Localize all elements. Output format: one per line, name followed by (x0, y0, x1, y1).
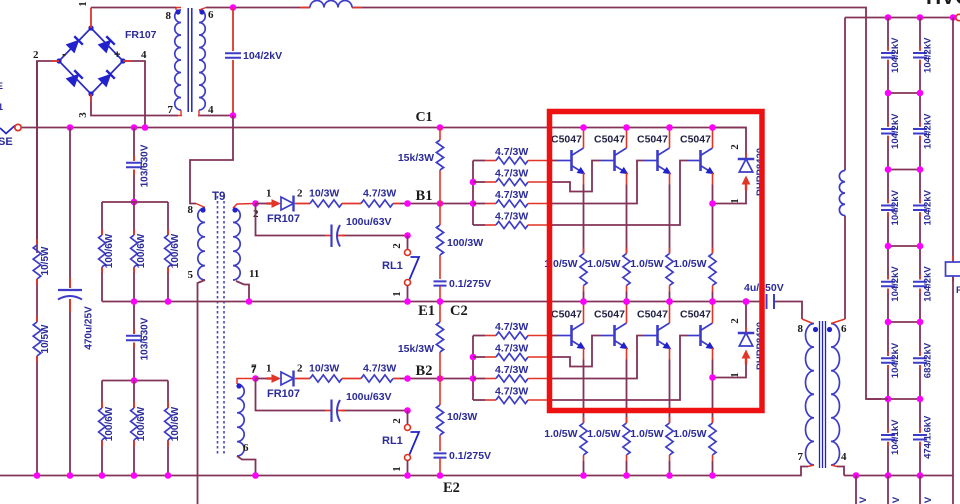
transformer T1 polarity dot pin6 (199, 9, 204, 14)
junction: RL1 branch (B1 row) (404, 200, 411, 207)
svg-text:1: 1 (729, 372, 741, 378)
wire: upper loop bottom (713, 191, 747, 204)
pin label 2 (lower diode, rotated) (729, 318, 741, 324)
red arrow up (lower diode) (742, 350, 751, 365)
label 4.7/3W rail 4 (upper) (495, 211, 528, 223)
wire: T2 pin7 lead (808, 465, 814, 467)
label 1.0/5W Q4 (upper) (673, 258, 706, 270)
junction collector Q2 on bus (lower) (623, 298, 630, 305)
pin label 4 (bridge) (141, 49, 147, 61)
wire: 0.1 cap to E1 bus (439, 286, 441, 302)
label SE (cut-off FUSE text) (0, 136, 13, 148)
wire: fan rail 4 lead (lower) (473, 399, 496, 401)
resistor 1.0/5W Q3 (lower) (666, 423, 673, 455)
wire: rail1 to Q1 base (upper) (548, 160, 558, 162)
svg-text:100/6W: 100/6W (136, 406, 147, 441)
label C5047 Q2 (lower) (594, 309, 625, 321)
svg-text:B2: B2 (416, 363, 433, 379)
wire: ladder col2 segment 2 (919, 93, 921, 170)
junction E1 bus x=134 (131, 298, 138, 305)
wire: T9 pin6 down to E2 bus (237, 456, 256, 476)
svg-text:T9: T9 (212, 191, 225, 203)
pin label 1 (upper diode, rotated) (729, 198, 741, 204)
relay contact RL1 bottom circle (upper) (405, 280, 411, 286)
capacitor 474/1.6kV col2 row6 (913, 435, 927, 439)
junction E2 bus x=102 (99, 472, 106, 479)
wire: rail2 jog to Q2 base (lower) (548, 336, 601, 367)
pin label 2 (RL1 upper, rotated) (391, 243, 403, 249)
diode FR107 (B2 row) (281, 371, 294, 387)
junction ladder col2 y=399 (917, 396, 924, 403)
wire: T2 pin6 up through inductor to HV rail (831, 18, 845, 324)
junction lower loop bottom (709, 374, 716, 381)
resistor 10/3W (B1 row) (310, 200, 342, 207)
T2 polarity dot pin8 (813, 327, 818, 332)
wire: emitter Q2 down (lower) (626, 348, 628, 423)
label FR107 (bridge) (125, 29, 157, 41)
resistor 100/6W #2 (131, 235, 138, 267)
wire: HV top rail (845, 17, 953, 19)
transformer T1 polarity dot pin8 (175, 9, 180, 14)
svg-text:FR107: FR107 (267, 388, 300, 400)
wire: top rail from bridge node 1 to transformer pin 8 (91, 7, 176, 9)
wire: bridge node 4 to main bus (123, 61, 145, 128)
svg-text:1.0/5W: 1.0/5W (544, 428, 577, 440)
label 1.0/5W Q1 (lower) (544, 428, 577, 440)
svg-text:4.7/3W: 4.7/3W (495, 168, 528, 180)
label 1.0/5W Q2 (upper) (587, 258, 620, 270)
junction emitter resistor on bus Q3 (lower) (666, 472, 673, 479)
wire: lower resistor bank top rail (102, 380, 168, 382)
node label B2 (416, 363, 433, 379)
svg-text:4: 4 (841, 451, 847, 463)
svg-text:6: 6 (243, 442, 249, 454)
fuse lead (left edge) (0, 126, 15, 134)
label 104/1kV col1 row6 (rotated) (890, 419, 901, 455)
wire: between resistors (B2 row) (342, 378, 361, 380)
pin label 8 (T9) (188, 204, 194, 216)
junction ladder col1 y=93 (885, 90, 892, 97)
resistor 4.7/3W rail 2 (upper) (496, 178, 528, 185)
svg-text:R: R (956, 285, 960, 296)
svg-text:103/630V: 103/630V (140, 144, 151, 187)
wire: top rail from transformer pin 6 to right, down at x=866 to cap ladder row (206, 8, 881, 400)
junction ladder col1 y=246 (885, 243, 892, 250)
svg-text:4.7/3W: 4.7/3W (495, 211, 528, 223)
wire: 100u cap branch (B2) (256, 379, 408, 411)
relay RL1 blade (lower) (410, 432, 420, 455)
wire: transformer pin4 stub (198, 115, 233, 117)
svg-text:1: 1 (77, 1, 89, 7)
junction E1 bus x=407.5 (404, 298, 411, 305)
diode FR107 (B1 row) (281, 196, 294, 212)
junction: T9 output node (B1 row) (252, 200, 259, 207)
wire: RL1 top lead (lower) (407, 411, 409, 425)
svg-text:C5047: C5047 (594, 309, 625, 321)
wire: between resistors (B1 row) (342, 203, 361, 205)
label 4.7/3W (B1 row) (363, 188, 396, 200)
bridge diode top-right (98, 36, 115, 53)
wire: ladder rung y=169.5 (888, 169, 920, 171)
svg-text:4.7/3W: 4.7/3W (495, 364, 528, 376)
capacitor 470u/25V (58, 290, 82, 300)
transformer T9 core (dashed) (218, 196, 225, 456)
junction upper loop top (709, 124, 715, 130)
resistor 100/6W #5 (131, 408, 138, 440)
junction HV rail x=920 (917, 14, 924, 21)
bridge vertex dot right (node 4) (120, 58, 125, 63)
red arrow up (upper diode) (742, 176, 751, 191)
label 4.7/3W rail 3 (upper) (495, 189, 528, 201)
svg-text:FR107: FR107 (267, 213, 300, 225)
svg-text:104/2kV: 104/2kV (890, 37, 901, 73)
junction ladder col2 y=93 (917, 90, 924, 97)
label 1.0/5W Q3 (upper) (630, 258, 663, 270)
wire: T9 pin7 to B2 diode node (237, 379, 256, 385)
label E fragment (left edge) (0, 81, 3, 91)
junction lower bank rail x=134 (131, 377, 138, 384)
wire: lower loop diode branch (745, 302, 747, 334)
junction ladder col2 y=169.5 (917, 166, 924, 173)
capacitor 104/2kV col1 row1 (881, 53, 895, 57)
bridge rectifier FR107 - frame (59, 28, 123, 94)
transistor Q4 C5047 (lower bank) (687, 323, 714, 349)
bridge diode bottom-right (98, 70, 115, 87)
label 103/630V (lower, rotated) (140, 317, 151, 360)
label 683/2kV col2 row5 (rotated) (923, 342, 934, 378)
svg-text:104/2kV: 104/2kV (890, 266, 901, 302)
pin label 2 (FR107 B2) (297, 363, 303, 375)
junction fan rail3 (lower) (470, 375, 477, 382)
wire: rail2 jog to Q2 base (upper) (548, 161, 601, 192)
wire: node to arrow stub (B2 row) (256, 378, 268, 380)
wire: fan rail 4 after resistor (upper) (528, 224, 548, 226)
label 4.7/3W rail 3 (lower) (495, 364, 528, 376)
svg-text:104/2kV: 104/2kV (890, 113, 901, 149)
junction: pin4/cap node (230, 112, 237, 119)
wire: node to arrow stub (B1 row) (256, 203, 268, 205)
label 100u/63V (B2) (346, 391, 392, 403)
junction emitter resistor on bus Q3 (upper) (666, 298, 673, 305)
svg-text:10/5W: 10/5W (40, 324, 51, 353)
wire: rail1 to Q1 base (lower) (548, 335, 558, 337)
junction emitter resistor on bus Q2 (lower) (623, 472, 630, 479)
pin label 6 (T9) (243, 442, 249, 454)
wire: B2 to 10/3W (439, 379, 441, 452)
wire: lower loop bottom (713, 365, 747, 378)
wire: inductor L1 red leads (300, 7, 362, 9)
junction: 100u cap to RL1 line (B2) (404, 407, 411, 414)
pin label 2 (bridge) (33, 49, 39, 61)
wire: ladder col2 below bus (919, 476, 921, 504)
label 100/6W #6 (rotated) (170, 406, 181, 441)
junction ladder col2 y=246 (917, 243, 924, 250)
resistor 15k/3W (upper) (436, 140, 443, 170)
svg-text:2: 2 (297, 363, 303, 375)
wire: below-bus stub x=856 (855, 476, 857, 504)
wire: fan rail 3 after resistor (upper) (528, 203, 548, 205)
svg-text:10/5W: 10/5W (40, 246, 51, 275)
wire: bridge node 2 to left column (37, 61, 59, 253)
wire: pin4 node down and over to T9 pin 8 (190, 116, 233, 208)
transistor Q1 C5047 (lower bank) (558, 323, 585, 349)
label 4.7/3W rail 2 (upper) (495, 168, 528, 180)
svg-text:100/3W: 100/3W (447, 237, 483, 249)
terminal circle (fuse output) (15, 124, 21, 130)
resistor 4.7/3W (B2 row) (361, 375, 393, 382)
wire: RL1 bottom lead (upper) (407, 286, 409, 302)
svg-text:V: V (923, 496, 934, 503)
label RHRP8420 (lower, rotated) (755, 322, 766, 370)
svg-text:4: 4 (208, 104, 214, 116)
svg-text:B1: B1 (416, 188, 433, 204)
svg-text:1: 1 (266, 188, 272, 200)
resistor 10/5W lower (33, 322, 41, 356)
wire: 1.0/5W to bus (lower) (583, 455, 585, 476)
label 4.7/3W rail 1 (lower) (495, 321, 528, 333)
svg-text:7: 7 (251, 363, 257, 375)
junction collector Q1 on bus (lower) (580, 298, 587, 305)
pin label 7 (T9) (251, 364, 257, 376)
junction on C1 bus x=440 (437, 124, 444, 131)
svg-text:6: 6 (841, 323, 847, 335)
junction collector Q3 on bus (upper) (666, 124, 673, 131)
junction: B node (B2 row) (437, 375, 444, 382)
relay contact RL1 bottom circle (lower) (405, 455, 411, 461)
svg-text:100/6W: 100/6W (104, 406, 115, 441)
svg-text:104/2kV: 104/2kV (923, 37, 934, 73)
label T9 (212, 191, 225, 203)
wire: T9 pin5 down (crosses buses) (198, 280, 206, 504)
svg-text:C5047: C5047 (551, 309, 582, 321)
wire: rail4 to Q4 base (lower) (548, 336, 687, 401)
wire: ladder col1 segment 1 (887, 18, 889, 94)
bridge vertex dot bottom (node 3) (88, 91, 93, 96)
wire: RL1 top lead (upper) (407, 236, 409, 250)
svg-text:C5047: C5047 (680, 134, 711, 146)
wire: collector Q2 to bus (upper) (626, 128, 628, 149)
svg-text:4.7/3W: 4.7/3W (495, 321, 528, 333)
label C5047 Q4 (upper) (680, 134, 711, 146)
svg-text:C5047: C5047 (594, 134, 625, 146)
wire: fan rail 3 lead (lower) (473, 378, 496, 380)
wire: C1 to 15k/3W to B1 (439, 128, 441, 204)
svg-text:104/2kV: 104/2kV (890, 342, 901, 378)
pin label 1 (FR107 B2) (266, 363, 272, 375)
junction collector Q3 on bus (lower) (666, 298, 673, 305)
capacitor 104/2kV col1 row2 (881, 129, 895, 133)
wire: lower 0.1 cap to E2 bus (439, 458, 441, 476)
junction on C1 bus x=134 (131, 124, 138, 131)
label 104/2kV col1 row5 (rotated) (890, 342, 901, 378)
junction emitter resistor on bus Q2 (upper) (623, 298, 630, 305)
label 474/1.6kV col2 row6 (rotated) (923, 415, 934, 459)
svg-text:4.7/3W: 4.7/3W (363, 363, 396, 375)
inductor L1 on top rail (310, 1, 352, 8)
wire: collector Q3 to bus (upper) (669, 128, 671, 149)
wire: 1.0/5W to bus (upper) (712, 286, 714, 302)
wire: ladder col1 below bus (887, 476, 889, 504)
label 1.0/5W Q1 (upper) (544, 258, 577, 270)
wire: base fan vertical (upper) (472, 161, 474, 226)
junction emitter resistor on bus Q1 (upper) (580, 298, 587, 305)
wire: B1 to 100/3W (439, 204, 441, 280)
svg-text:100/6W: 100/6W (170, 406, 181, 441)
bridge vertex dot top (node 1) (88, 25, 93, 30)
svg-text:10/3W: 10/3W (447, 411, 477, 423)
label FR107 (B1 row) (267, 213, 300, 225)
svg-text:11: 11 (249, 268, 259, 280)
label 100/6W #2 (rotated) (136, 233, 147, 268)
svg-text:1.0/5W: 1.0/5W (630, 428, 663, 440)
junction collector Q4 on bus (lower) (709, 298, 716, 305)
pin label 1 (RL1 upper, rotated) (391, 291, 403, 297)
junction: 100u cap to RL1 line (B1) (404, 232, 411, 239)
svg-text:1: 1 (391, 291, 403, 297)
red arrow (diode direction) (B2 row) (267, 374, 282, 383)
T9 polarity dot winding B (232, 207, 237, 212)
resistor 4.7/3W rail 2 (lower) (496, 353, 528, 360)
wire: rail4 to Q4 base (upper) (548, 161, 687, 226)
resistor 10/5W upper (33, 245, 41, 279)
bridge diode bottom-left (66, 70, 83, 87)
T2 polarity dot pin6 (827, 327, 832, 332)
junction resistor bank top rail (131, 199, 138, 206)
diode RHRP8420 (lower) (738, 333, 755, 346)
wire: ladder col2 segment 1 (919, 18, 921, 94)
svg-text:C1: C1 (415, 110, 432, 125)
label 104/2kV col2 row3 (rotated) (923, 189, 934, 225)
wire: ladder rung y=246 (888, 245, 920, 247)
svg-text:5: 5 (188, 269, 194, 281)
svg-text:100u/63V: 100u/63V (346, 216, 392, 228)
wire: T2 pin4 to E2 right segment (831, 465, 844, 476)
svg-text:2: 2 (297, 188, 303, 200)
label 4u/450V (744, 282, 784, 294)
capacitor 104/2kV col1 row4 (881, 282, 895, 286)
svg-text:1.0/5W: 1.0/5W (673, 258, 706, 270)
capacitor 4u/450V (767, 294, 775, 309)
capacitor 104/2kV col2 row2 (913, 129, 927, 133)
label 15k/3W (lower) (398, 343, 434, 355)
wire: ladder rung y=322 (888, 321, 920, 323)
terminal circle HV (right edge) (956, 14, 960, 20)
svg-text:V: V (891, 496, 902, 503)
capacitor 0.1/275V (upper) (434, 281, 447, 285)
wire: 1.0/5W to bus (upper) (583, 286, 585, 302)
svg-text:104/2kV: 104/2kV (243, 50, 282, 62)
wire: emitter Q4 down (upper) (712, 173, 714, 254)
annotation: red highlight box (550, 112, 763, 411)
capacitor 104/2kV col2 row4 (913, 282, 927, 286)
wire: 1.0/5W to bus (upper) (669, 286, 671, 302)
svg-text:100/6W: 100/6W (104, 233, 115, 268)
svg-text:C5047: C5047 (680, 309, 711, 321)
wire: emitter Q3 down (lower) (669, 348, 671, 423)
junction E1 bus x=168 (165, 298, 172, 305)
label HVC (cut off at top) (926, 0, 960, 9)
label 10/5W (upper, rotated) (40, 246, 51, 275)
label RL1 (lower) (382, 435, 403, 447)
wire: 103/630V cap column upper (133, 128, 135, 203)
wire: 4u cap to T2 pin 8 (775, 302, 813, 324)
capacitor 103/630V (lower) (126, 336, 142, 341)
resistor 4.7/3W rail 1 (upper) (496, 157, 528, 164)
junction ladder col2 bottom (917, 472, 924, 479)
junction lower loop top (743, 298, 750, 305)
junction E2 bus x=440 (437, 472, 444, 479)
capacitor 100u/63V (B1) (332, 225, 341, 248)
svg-text:8: 8 (798, 323, 804, 335)
svg-text:15k/3W: 15k/3W (398, 343, 434, 355)
junction E2 right x=856 (853, 472, 860, 479)
label 15k/3W (upper) (398, 152, 434, 164)
junction ladder col1 y=169.5 (885, 166, 892, 173)
wire: collector Q4 to bus (lower) (712, 302, 714, 324)
transistor Q3 C5047 (upper bank) (644, 148, 671, 174)
pin label 6 (T2) (841, 323, 847, 335)
transistor Q2 C5047 (lower bank) (601, 323, 628, 349)
label 10/3W (x440) (447, 411, 477, 423)
diode RHRP8420 (upper) (738, 159, 755, 172)
svg-text:8: 8 (166, 10, 172, 22)
resistor 1.0/5W Q1 (lower) (580, 423, 587, 455)
svg-text:104/2kV: 104/2kV (923, 266, 934, 302)
wire: T1 pin7 lead (178, 110, 182, 116)
label C5047 Q3 (lower) (637, 309, 668, 321)
svg-text:2: 2 (729, 144, 741, 150)
resistor 4.7/3W rail 3 (lower) (496, 375, 528, 382)
svg-text:E: E (0, 81, 3, 91)
svg-text:104/2kV: 104/2kV (890, 189, 901, 225)
svg-text:474/1.6kV: 474/1.6kV (923, 415, 934, 459)
label 0.1/275V (lower) (449, 450, 491, 462)
wire: C2 to 15k/3W to B2 (439, 302, 441, 379)
resistor 1.0/5W Q1 (upper) (580, 254, 587, 286)
label 100/6W #5 (rotated) (136, 406, 147, 441)
T9 winding B coil (pins 2-11) (233, 208, 240, 280)
wire: 1.0/5W to bus (lower) (626, 455, 628, 476)
svg-text:E1: E1 (418, 303, 435, 319)
pin label 2 (T9) (253, 208, 259, 220)
svg-text:104/2kV: 104/2kV (923, 113, 934, 149)
wire: emitter Q1 down (upper) (583, 173, 585, 254)
pin label 6 (T1) (208, 9, 214, 21)
label 470u/25V (rotated) (84, 306, 95, 350)
label 4.7/3W rail 4 (lower) (495, 386, 528, 398)
pin label 1 (RL1 lower, rotated) (391, 466, 403, 472)
junction E2 bus x=37 (34, 472, 41, 479)
svg-text:+: + (114, 49, 120, 61)
junction ladder col1 y=399 (885, 396, 892, 403)
pin label 1 (lower diode, rotated) (729, 372, 741, 378)
junction on C1 bus x=145 (142, 124, 149, 131)
svg-text:1: 1 (266, 363, 272, 375)
wire: fan rail 2 after resistor (lower) (528, 356, 548, 358)
wire: E2 bus (left segment) (0, 467, 808, 476)
label + (bridge plus) (114, 49, 120, 61)
junction HV rail x=888 (885, 14, 892, 21)
wire: collector Q3 to bus (lower) (669, 302, 671, 324)
wire: fan rail 1 after resistor (upper) (528, 160, 548, 162)
svg-text:7: 7 (798, 451, 804, 463)
T9 polarity dot winding A (200, 207, 205, 212)
resistor 4.7/3W (B1 row) (361, 200, 393, 207)
pin label 8 (T1) (166, 10, 172, 22)
wire: resistor to B node (B1 row) (393, 203, 473, 205)
junction E2 bus x=134 (131, 472, 138, 479)
svg-text:2: 2 (391, 418, 403, 424)
